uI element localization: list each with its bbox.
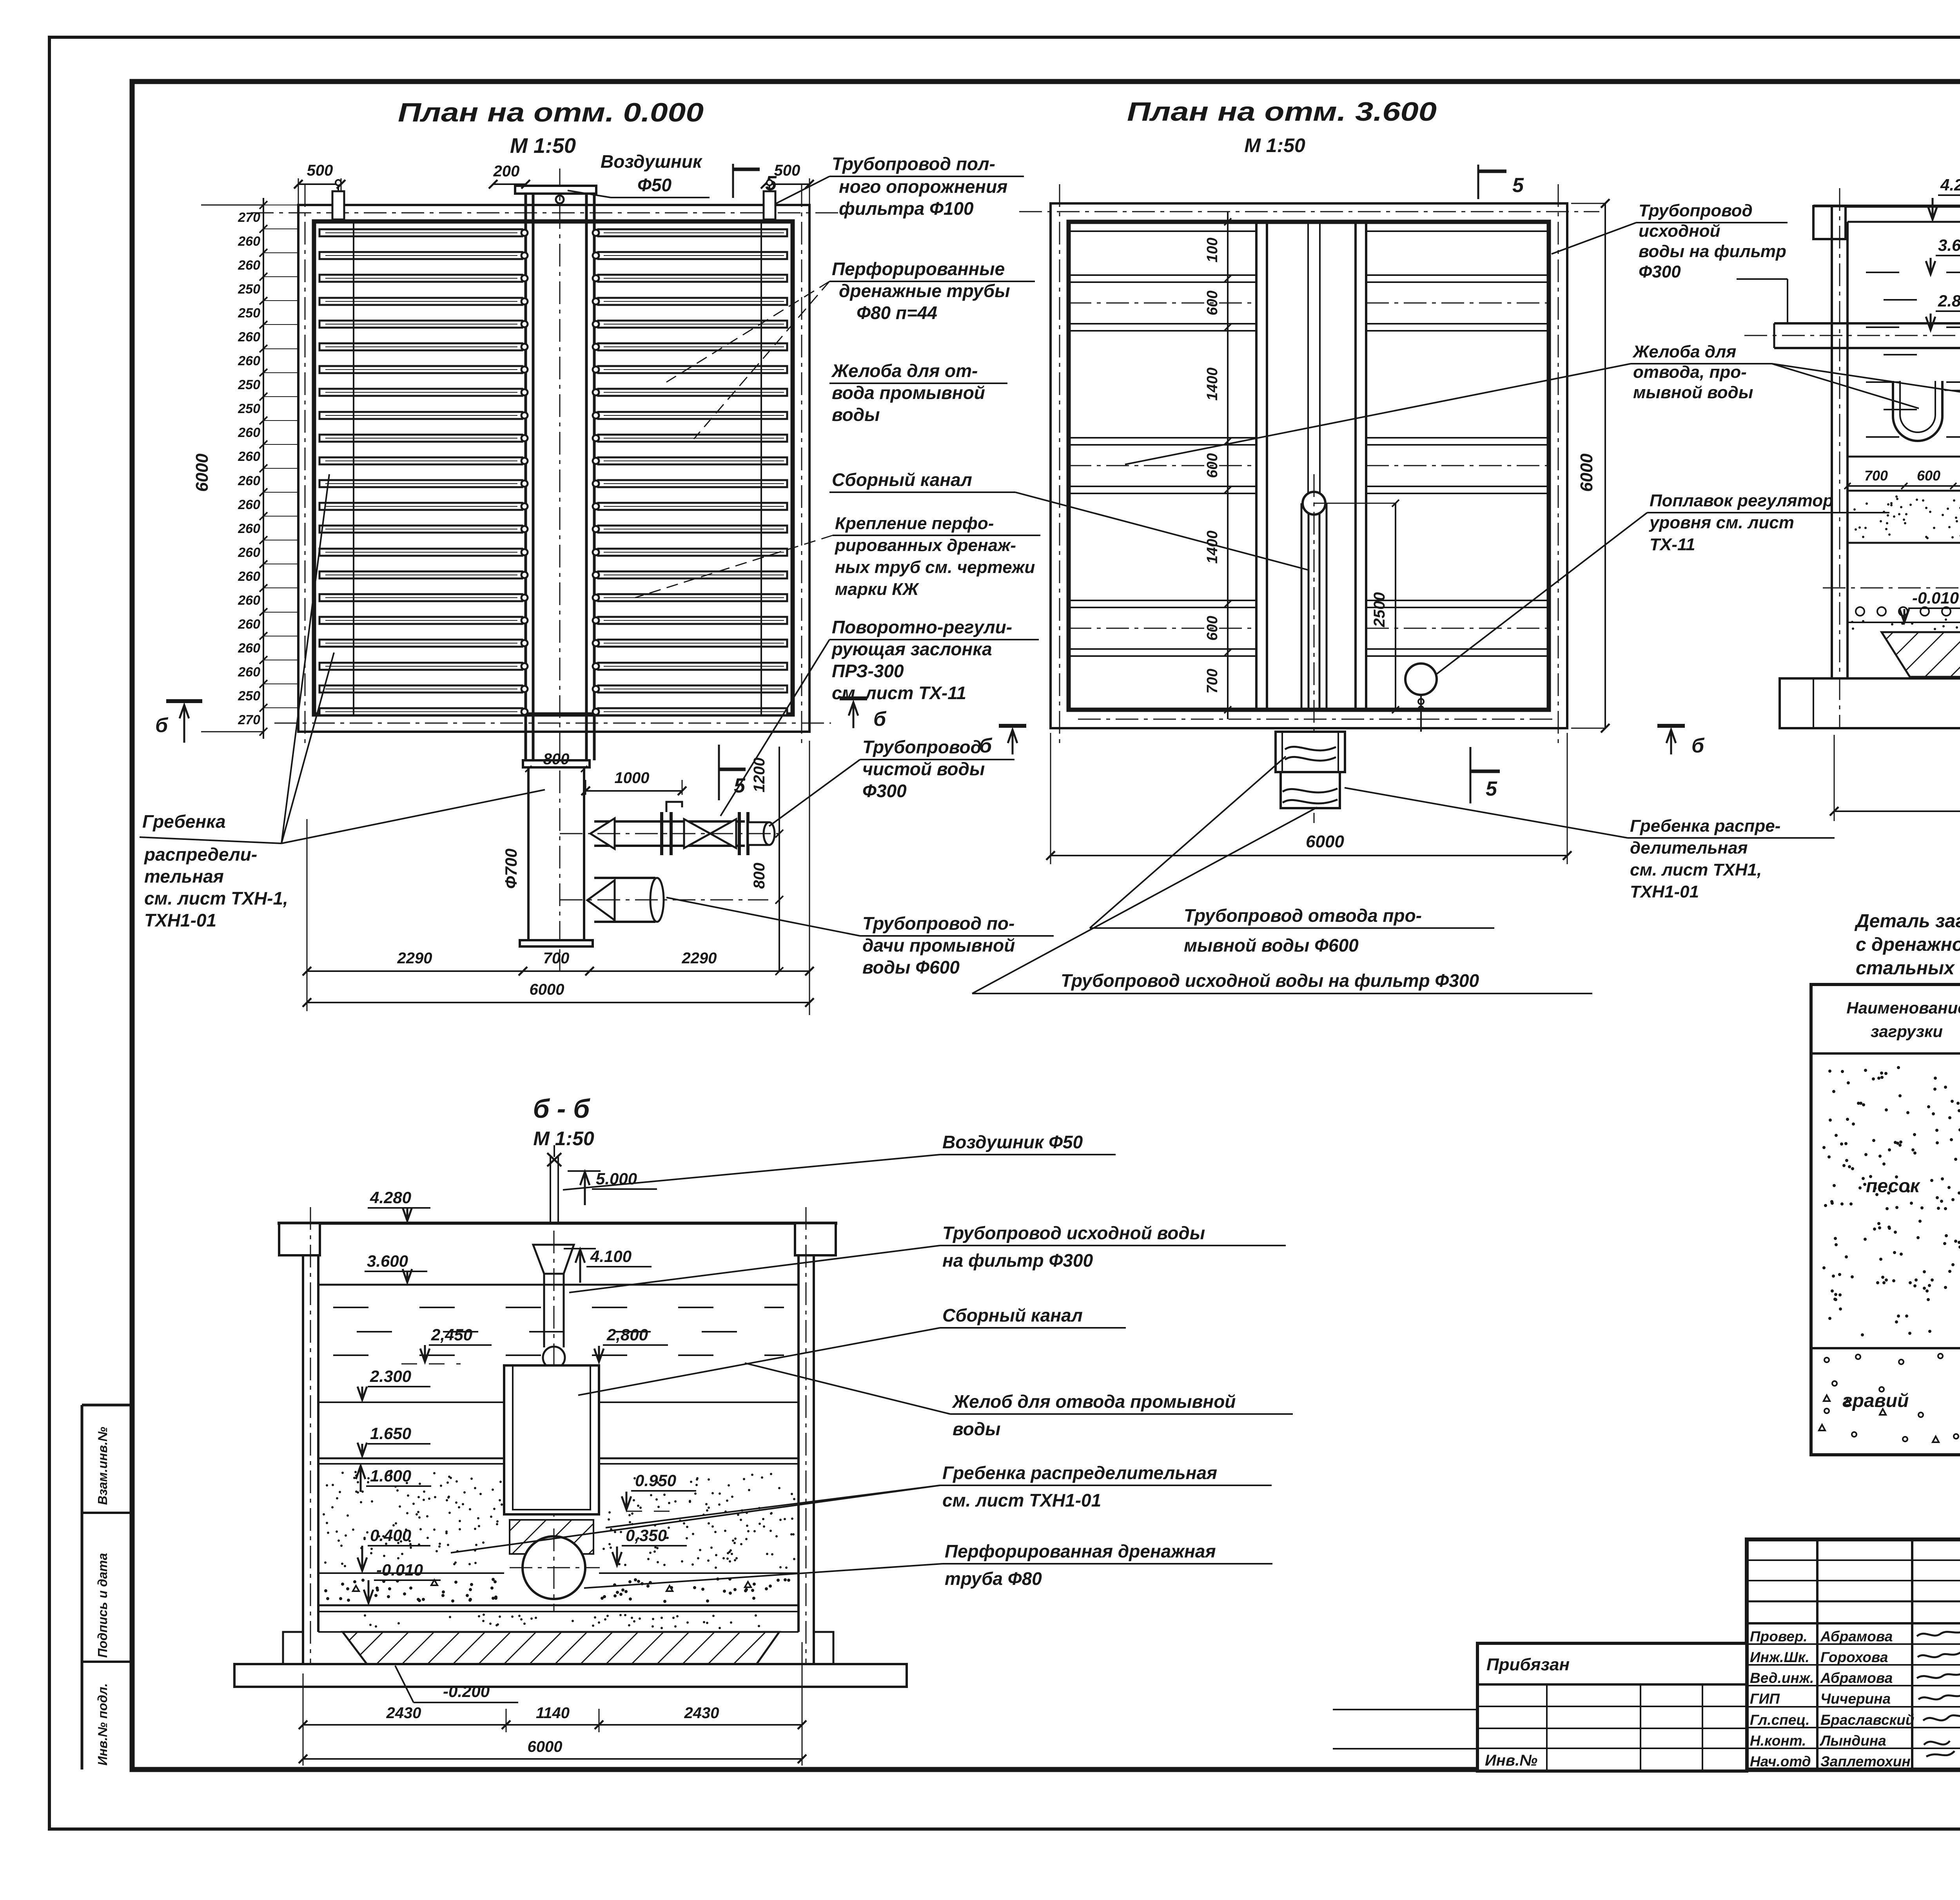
svg-text:воды: воды (953, 1419, 1000, 1439)
svg-text:2290: 2290 (682, 950, 717, 967)
svg-text:воды: воды (832, 404, 880, 425)
svg-text:Ф700: Ф700 (502, 848, 520, 889)
svg-text:270: 270 (238, 712, 260, 727)
svg-text:Трубопровод пол-: Трубопровод пол- (832, 154, 995, 174)
svg-text:6000: 6000 (530, 981, 564, 998)
svg-text:ТХН1-01: ТХН1-01 (1630, 882, 1699, 901)
svg-text:700: 700 (543, 950, 570, 967)
svg-text:Ф300: Ф300 (1639, 262, 1681, 281)
svg-text:Инж.Шк.: Инж.Шк. (1750, 1649, 1809, 1665)
svg-text:2500: 2500 (1371, 592, 1388, 627)
svg-text:ГИП: ГИП (1750, 1691, 1780, 1707)
svg-text:Крепление перфо-: Крепление перфо- (835, 514, 994, 533)
svg-text:Браславский: Браславский (1820, 1712, 1915, 1728)
svg-text:делительная: делительная (1630, 838, 1748, 858)
svg-text:вода промывной: вода промывной (832, 383, 985, 403)
svg-text:6000: 6000 (1306, 832, 1344, 851)
svg-text:Желоб для отвода промывной: Желоб для отвода промывной (952, 1391, 1236, 1412)
svg-text:исходной: исходной (1639, 221, 1720, 241)
svg-text:Поплавок регулятор: Поплавок регулятор (1650, 491, 1833, 510)
svg-text:0.950: 0.950 (635, 1471, 676, 1490)
svg-text:рующая заслонка: рующая заслонка (831, 639, 992, 659)
svg-text:см. лист ТХН-1,: см. лист ТХН-1, (144, 888, 288, 908)
svg-text:Ф50: Ф50 (637, 175, 671, 195)
svg-text:-0.010: -0.010 (376, 1561, 423, 1579)
svg-text:б: б (873, 708, 887, 731)
svg-text:песок: песок (1866, 1176, 1921, 1197)
svg-text:260: 260 (238, 234, 260, 249)
svg-text:5: 5 (1512, 174, 1524, 197)
svg-text:-0.010: -0.010 (1912, 589, 1959, 607)
svg-text:100: 100 (1204, 237, 1221, 262)
svg-text:1000: 1000 (615, 769, 650, 787)
svg-text:260: 260 (238, 425, 260, 440)
svg-text:Горохова: Горохова (1820, 1649, 1888, 1665)
svg-text:Инв.№ подл.: Инв.№ подл. (95, 1683, 110, 1766)
svg-text:260: 260 (238, 569, 260, 584)
svg-text:ТХН1-01: ТХН1-01 (144, 910, 216, 930)
svg-text:0.400: 0.400 (370, 1526, 411, 1545)
svg-text:с дренажной системой из: с дренажной системой из (1856, 934, 1960, 955)
svg-text:4.280: 4.280 (1940, 176, 1960, 194)
svg-text:Ф300: Ф300 (862, 781, 907, 801)
svg-text:2290: 2290 (397, 950, 432, 967)
svg-text:250: 250 (238, 282, 260, 297)
svg-text:Перфорированные: Перфорированные (832, 259, 1005, 279)
svg-text:тельная: тельная (144, 866, 224, 887)
svg-text:260: 260 (238, 641, 260, 656)
svg-text:2.300: 2.300 (370, 1367, 411, 1385)
svg-text:Провер.: Провер. (1750, 1628, 1808, 1644)
svg-text:600: 600 (1917, 468, 1940, 484)
svg-text:Сборный канал: Сборный канал (832, 470, 972, 490)
svg-text:рированных дренаж-: рированных дренаж- (835, 536, 1016, 555)
svg-text:Трубопровод отвода про-: Трубопровод отвода про- (1184, 905, 1422, 926)
svg-text:б: б (1691, 734, 1705, 757)
svg-text:чистой воды: чистой воды (862, 759, 985, 779)
svg-text:2430: 2430 (684, 1704, 719, 1722)
svg-text:Гребенка распре-: Гребенка распре- (1630, 816, 1780, 836)
svg-text:Перфорированная дренажная: Перфорированная дренажная (945, 1541, 1216, 1561)
svg-text:6000: 6000 (192, 453, 212, 492)
svg-text:стальных труб: стальных труб (1856, 958, 1960, 979)
svg-text:1400: 1400 (1204, 531, 1221, 564)
svg-text:1.600: 1.600 (370, 1467, 411, 1485)
svg-text:Сборный канал: Сборный канал (942, 1305, 1083, 1325)
svg-text:М 1:50: М 1:50 (1244, 134, 1305, 156)
svg-text:Желоба для от-: Желоба для от- (831, 361, 978, 381)
svg-text:2.800: 2.800 (1938, 292, 1960, 310)
svg-text:4.100: 4.100 (590, 1247, 632, 1265)
svg-text:3.600: 3.600 (367, 1252, 408, 1270)
svg-text:Воздушник Ф50: Воздушник Ф50 (942, 1132, 1083, 1152)
svg-text:Взам.инв.№: Взам.инв.№ (95, 1427, 110, 1505)
svg-text:Трубопровод исходной воды н: Трубопровод исходной воды на фильтр Ф300 (1061, 970, 1479, 991)
svg-text:1400: 1400 (1204, 368, 1221, 401)
svg-text:260: 260 (238, 473, 260, 488)
svg-text:см. лист ТХ-11: см. лист ТХ-11 (832, 683, 966, 703)
svg-text:Трубопровод: Трубопровод (862, 737, 982, 757)
svg-text:см. лист ТХН1,: см. лист ТХН1, (1630, 860, 1762, 879)
svg-text:Поворотно-регули-: Поворотно-регули- (832, 617, 1012, 637)
svg-text:2430: 2430 (386, 1704, 421, 1722)
svg-text:5: 5 (1486, 778, 1497, 800)
svg-text:ного опорожнения: ного опорожнения (839, 176, 1007, 197)
svg-text:Ф80 п=44: Ф80 п=44 (857, 303, 937, 323)
svg-text:600: 600 (1204, 453, 1221, 478)
svg-text:Трубопровод по-: Трубопровод по- (862, 913, 1014, 934)
svg-text:500: 500 (774, 162, 800, 179)
svg-text:Подпись и дата: Подпись и дата (95, 1553, 110, 1658)
svg-text:воды на фильтр: воды на фильтр (1639, 242, 1786, 261)
svg-text:4.280: 4.280 (370, 1188, 411, 1207)
svg-text:ных труб см. чертежи: ных труб см. чертежи (835, 558, 1035, 577)
svg-text:600: 600 (1204, 616, 1221, 640)
svg-text:270: 270 (238, 210, 260, 225)
svg-text:500: 500 (307, 162, 333, 179)
svg-text:250: 250 (238, 306, 260, 321)
svg-text:М 1:50: М 1:50 (533, 1128, 594, 1149)
svg-text:260: 260 (238, 665, 260, 680)
svg-text:б: б (155, 714, 169, 737)
svg-text:700: 700 (1204, 669, 1221, 693)
svg-text:Абрамова: Абрамова (1820, 1628, 1893, 1644)
svg-text:250: 250 (238, 401, 260, 416)
svg-text:План на отм. 3.600: План на отм. 3.600 (1127, 97, 1437, 127)
svg-text:800: 800 (751, 863, 768, 889)
svg-text:Вед.инж.: Вед.инж. (1750, 1670, 1814, 1686)
svg-text:труба Ф80: труба Ф80 (945, 1568, 1042, 1589)
svg-text:Н.конт.: Н.конт. (1750, 1733, 1806, 1749)
svg-text:отвода, про-: отвода, про- (1633, 363, 1747, 382)
svg-text:на фильтр Ф300: на фильтр Ф300 (942, 1250, 1093, 1271)
svg-text:см. лист ТХН1-01: см. лист ТХН1-01 (942, 1490, 1101, 1510)
svg-text:1.650: 1.650 (370, 1424, 411, 1443)
svg-text:250: 250 (238, 377, 260, 392)
svg-text:Чичерина: Чичерина (1820, 1691, 1891, 1707)
svg-text:700: 700 (1864, 468, 1888, 484)
svg-text:ТХ-11: ТХ-11 (1650, 535, 1695, 554)
svg-text:мывной воды: мывной воды (1633, 383, 1753, 402)
svg-text:260: 260 (238, 521, 260, 536)
svg-text:260: 260 (238, 497, 260, 512)
svg-text:2,800: 2,800 (606, 1325, 648, 1344)
svg-text:Трубопровод: Трубопровод (1639, 201, 1753, 220)
svg-text:Трубопровод исходной воды: Трубопровод исходной воды (942, 1223, 1205, 1243)
svg-text:1140: 1140 (536, 1704, 570, 1722)
svg-text:260: 260 (238, 258, 260, 273)
svg-text:дачи промывной: дачи промывной (862, 935, 1015, 955)
svg-text:260: 260 (238, 545, 260, 560)
svg-text:6000: 6000 (528, 1738, 563, 1755)
svg-text:мывной воды Ф600: мывной воды Ф600 (1184, 935, 1359, 955)
svg-text:Гребенка: Гребенка (142, 811, 226, 832)
svg-text:ПРЗ-300: ПРЗ-300 (832, 661, 904, 681)
svg-text:3.600: 3.600 (1938, 236, 1960, 254)
svg-text:260: 260 (238, 617, 260, 632)
svg-text:250: 250 (238, 689, 260, 703)
svg-text:Заплетохин: Заплетохин (1820, 1753, 1911, 1769)
svg-text:дренажные трубы: дренажные трубы (839, 281, 1010, 301)
svg-text:0,350: 0,350 (626, 1526, 667, 1545)
svg-text:200: 200 (493, 163, 520, 180)
svg-text:фильтра Ф100: фильтра Ф100 (839, 198, 974, 219)
svg-text:Деталь загрузки фильтра: Деталь загрузки фильтра (1854, 911, 1960, 932)
svg-text:б: б (979, 734, 993, 757)
svg-text:260: 260 (238, 593, 260, 608)
svg-text:6000: 6000 (1577, 453, 1596, 492)
svg-text:Прибязан: Прибязан (1486, 1655, 1570, 1674)
svg-text:М 1:50: М 1:50 (510, 134, 576, 158)
svg-text:гравий: гравий (1842, 1391, 1909, 1411)
svg-text:распредели-: распредели- (143, 844, 257, 865)
svg-text:воды Ф600: воды Ф600 (862, 957, 960, 977)
svg-text:Желоба для: Желоба для (1632, 342, 1736, 361)
svg-text:Нач.отд: Нач.отд (1750, 1753, 1811, 1769)
svg-text:800: 800 (543, 751, 570, 768)
svg-text:260: 260 (238, 354, 260, 368)
svg-text:Наименование: Наименование (1846, 999, 1960, 1017)
svg-text:260: 260 (238, 330, 260, 344)
svg-text:Абрамова: Абрамова (1820, 1670, 1893, 1686)
svg-text:-0.200: -0.200 (443, 1682, 490, 1701)
svg-text:уровня см. лист: уровня см. лист (1649, 513, 1794, 532)
svg-text:Воздушник: Воздушник (601, 151, 703, 172)
svg-text:2,450: 2,450 (431, 1325, 472, 1344)
svg-text:б - б: б - б (533, 1094, 591, 1124)
svg-text:600: 600 (1204, 290, 1221, 315)
svg-text:марки КЖ: марки КЖ (835, 580, 919, 599)
svg-text:План на отм. 0.000: План на отм. 0.000 (398, 98, 704, 127)
svg-text:загрузки: загрузки (1871, 1022, 1943, 1041)
svg-text:Инв.№: Инв.№ (1485, 1752, 1537, 1769)
svg-text:260: 260 (238, 449, 260, 464)
svg-text:Гл.спец.: Гл.спец. (1750, 1712, 1810, 1728)
svg-text:Гребенка распределительная: Гребенка распределительная (942, 1463, 1217, 1483)
svg-text:Лындина: Лындина (1819, 1733, 1886, 1749)
